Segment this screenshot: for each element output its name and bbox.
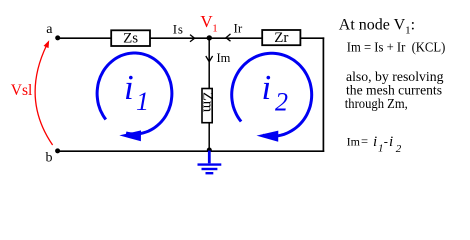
impedance Zr [262,30,300,46]
current arrow Is [190,35,195,42]
wire top: node a to top-right corner [58,37,325,39]
svg-text:through Zm,: through Zm, [345,96,408,111]
node b [55,148,60,153]
svg-text:i: i [124,68,134,107]
svg-text:-: - [384,135,388,149]
svg-text:Zm: Zm [199,92,215,113]
current arrow Ir [226,34,231,41]
svg-text:Ir: Ir [234,21,243,36]
svg-text:Zs: Zs [123,31,138,47]
ground [198,151,222,174]
svg-text:Im: Im [347,135,361,149]
arrowhead i1 [119,130,141,141]
voltage source arc Vs1 [35,46,52,146]
current arrow Im [206,56,213,62]
node a [55,35,60,40]
svg-text:1: 1 [378,143,384,155]
svg-text:b: b [46,151,53,166]
svg-text:=: = [361,135,368,149]
svg-text:1: 1 [136,87,149,116]
text: mesh equation Im = i1 - i2 [347,134,402,155]
svg-text:Vsl: Vsl [11,82,33,99]
mesh current loop i2 [232,53,312,136]
svg-text:Zr: Zr [274,30,288,46]
ground node [207,148,212,153]
wire right vertical [322,37,324,152]
label V1 [200,12,217,35]
label Vs1 [11,82,33,99]
svg-text:Im: Im [217,51,231,65]
svg-text:i: i [373,134,377,150]
svg-text:Is: Is [173,22,184,37]
svg-text:i: i [389,134,393,150]
label i1 [124,68,149,116]
svg-text:1: 1 [212,23,218,35]
svg-text:a: a [46,22,53,37]
wire middle branch: V1 down to ground node [208,38,210,151]
svg-text:2: 2 [275,88,288,117]
node V1 [207,35,212,40]
impedance Zs [111,30,150,46]
wire bottom: node b to bottom-right corner [57,150,324,152]
label i2 [262,68,289,117]
arrowhead i2 [257,131,279,142]
svg-text:Im = Is + Ir (KCL): Im = Is + Ir (KCL) [347,41,446,56]
impedance Zm [199,89,215,123]
svg-text:i: i [262,68,272,107]
arrowhead Vs1 [44,40,50,48]
svg-text:At node V1:: At node V1: [339,17,415,37]
mesh current loop i1 [97,53,172,134]
svg-text:2: 2 [396,143,402,155]
